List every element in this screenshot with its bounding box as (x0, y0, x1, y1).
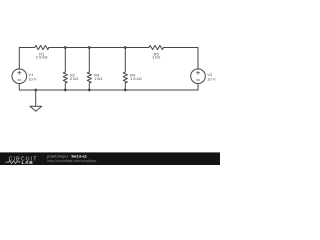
svg-text:1 kΩ: 1 kΩ (152, 55, 160, 60)
svg-text:http://circuitlab.com/c/cqfhpw: http://circuitlab.com/c/cqfhpw (47, 159, 96, 163)
svg-text:1 kΩ: 1 kΩ (94, 76, 102, 81)
svg-text:2 kΩ: 2 kΩ (70, 76, 78, 81)
svg-text:1.5 kΩ: 1.5 kΩ (130, 76, 142, 81)
svg-text:2.5 kΩ: 2.5 kΩ (36, 55, 48, 60)
svg-text:LAB: LAB (22, 160, 34, 165)
svg-text:10 V: 10 V (28, 76, 37, 81)
svg-text:prantohopu : 9w13-a1: prantohopu : 9w13-a1 (47, 154, 87, 158)
svg-text:10 V: 10 V (207, 76, 216, 81)
